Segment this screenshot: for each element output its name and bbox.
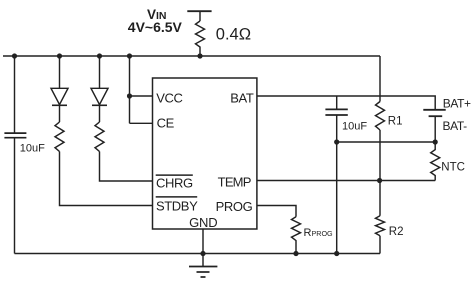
svg-text:PROG: PROG bbox=[216, 199, 253, 214]
svg-text:CE: CE bbox=[157, 116, 175, 131]
junction dot VCC branch bbox=[127, 93, 132, 98]
wire BAT- to junction bbox=[434, 116, 436, 142]
junction dot bus / D2 branch bbox=[97, 53, 102, 58]
wire BAT pin to battery bbox=[257, 96, 435, 110]
resistor R4 bbox=[95, 122, 104, 152]
svg-text:VCC: VCC bbox=[156, 91, 182, 106]
wire R4 to CHRG bbox=[100, 152, 153, 182]
junction dot battery/NTC node bbox=[433, 139, 438, 144]
wire R2 to ground bus bbox=[379, 236, 381, 254]
svg-text:BAT: BAT bbox=[230, 90, 254, 105]
svg-text:RPROG: RPROG bbox=[304, 227, 334, 239]
capacitor C2 10uF bbox=[325, 109, 347, 115]
resistor R1 bbox=[376, 102, 385, 131]
svg-text:GND: GND bbox=[189, 215, 217, 230]
wire bus corner to R1 bbox=[379, 56, 381, 102]
svg-text:R1: R1 bbox=[388, 116, 403, 128]
junction dot C2 bottom node bbox=[334, 139, 339, 144]
wire C2 bottom lead to ground bus bbox=[336, 115, 338, 254]
wire TEMP pin to NTC bbox=[257, 180, 435, 182]
resistor RPROG bbox=[292, 217, 301, 254]
svg-text:10uF: 10uF bbox=[342, 120, 367, 132]
wire to CE pin bbox=[130, 122, 153, 124]
svg-text:STDBY: STDBY bbox=[156, 199, 198, 214]
wire PROG pin to RPROG bbox=[257, 206, 296, 217]
wire VCC/CE branch bbox=[129, 56, 131, 123]
pin label CHRG with overline bbox=[156, 175, 193, 191]
diode D1 bbox=[51, 88, 68, 122]
svg-text:R2: R2 bbox=[389, 226, 404, 238]
battery plate BAT- bbox=[429, 115, 443, 117]
wire ground bus bbox=[15, 253, 381, 255]
svg-text:10uF: 10uF bbox=[20, 142, 45, 154]
junction dot bus / 0.4R bbox=[197, 53, 202, 58]
resistor R3 bbox=[55, 122, 64, 152]
wire GND pin to ground bus bbox=[202, 229, 204, 254]
diode D2 bbox=[91, 88, 108, 122]
wire C1 bottom lead to ground bus bbox=[14, 138, 16, 254]
pin label STDBY with overline bbox=[156, 197, 198, 214]
svg-text:4V~6.5V: 4V~6.5V bbox=[128, 19, 183, 35]
junction dot GND at ground bus bbox=[200, 251, 205, 256]
wire to VCC pin bbox=[130, 95, 153, 97]
wire C1 top lead bbox=[14, 56, 16, 133]
op-amp U1 charger IC body bbox=[153, 78, 257, 229]
wire D2 top lead bbox=[99, 56, 101, 88]
capacitor C2 10uF top lead bbox=[336, 96, 338, 109]
battery plate BAT+ bbox=[423, 109, 445, 111]
svg-text:BAT+: BAT+ bbox=[443, 96, 471, 110]
junction dot bus / D1 branch bbox=[57, 53, 62, 58]
svg-text:BAT-: BAT- bbox=[443, 119, 468, 133]
svg-text:CHRG: CHRG bbox=[156, 176, 193, 191]
resistor NTC bbox=[431, 142, 440, 181]
svg-text:TEMP: TEMP bbox=[218, 174, 251, 189]
junction dot bus / VCC branch bbox=[127, 53, 132, 58]
junction dot RPROG at ground bus bbox=[293, 251, 298, 256]
svg-text:NTC: NTC bbox=[441, 161, 465, 173]
junction dot TEMP / R1R2 bbox=[377, 178, 382, 183]
junction dot C2 at ground bus bbox=[334, 251, 339, 256]
svg-text:0.4Ω: 0.4Ω bbox=[216, 26, 251, 44]
junction dot at VIN bus / C1 branch bbox=[12, 53, 17, 58]
resistor R2 bbox=[376, 216, 385, 236]
wire R3 to STDBY bbox=[60, 152, 153, 206]
wire R1 to R2 bbox=[379, 130, 381, 216]
ground bbox=[189, 254, 217, 278]
wire top bus bbox=[3, 55, 380, 57]
wire junction line bbox=[337, 141, 436, 143]
terminal VIN bbox=[187, 11, 211, 21]
wire D1 top lead bbox=[59, 56, 61, 88]
capacitor C1 10uF bbox=[4, 133, 26, 138]
resistor 0.4R bbox=[196, 21, 205, 56]
